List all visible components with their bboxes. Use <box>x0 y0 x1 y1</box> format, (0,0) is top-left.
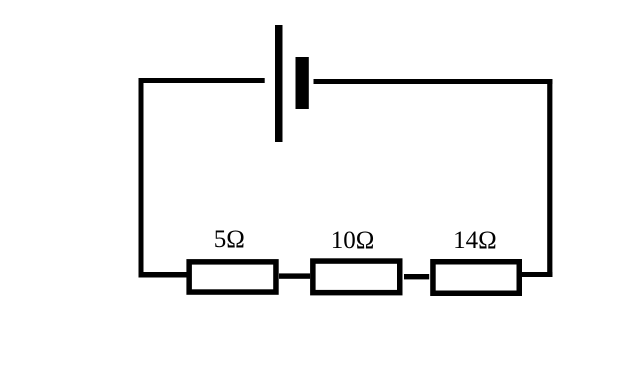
wire left vertical <box>139 78 144 278</box>
resistor R1 box <box>189 262 276 292</box>
wire between R2 and R3 <box>404 274 429 279</box>
wire bottom-left segment <box>139 272 187 278</box>
wire between R1 and R2 <box>279 273 310 278</box>
svg-text:10Ω: 10Ω <box>331 227 375 254</box>
wire top-right segment <box>314 79 553 84</box>
resistor R2 box <box>313 261 400 293</box>
wire right vertical <box>547 79 552 277</box>
battery B1 long plate (positive) <box>275 25 283 142</box>
resistor R3 box <box>433 262 519 294</box>
battery B1 short thick plate (negative) <box>296 57 309 109</box>
wire bottom-right segment <box>522 272 552 277</box>
wire top-left segment <box>139 78 265 83</box>
svg-text:5Ω: 5Ω <box>214 226 245 253</box>
svg-text:14Ω: 14Ω <box>453 227 497 254</box>
